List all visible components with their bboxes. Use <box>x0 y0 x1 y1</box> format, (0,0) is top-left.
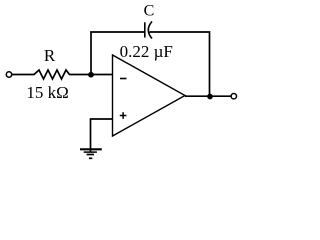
svg-text:R: R <box>44 46 56 65</box>
svg-text:C: C <box>144 3 155 20</box>
svg-text:0.22 µF: 0.22 µF <box>120 42 173 61</box>
svg-text:15 kΩ: 15 kΩ <box>26 83 68 102</box>
